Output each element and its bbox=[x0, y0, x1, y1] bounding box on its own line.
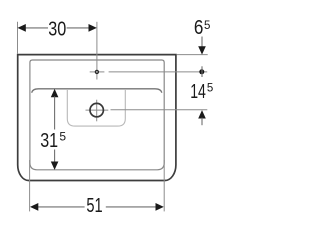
dim 51: dimension line bbox=[37, 206, 85, 208]
top edge leader line to right bbox=[177, 54, 208, 56]
outer basin outline bbox=[18, 55, 176, 181]
svg-text:5: 5 bbox=[204, 20, 210, 32]
drain crosshair horizontal bbox=[86, 109, 109, 111]
dim 14.5: up arrow below drain line bbox=[198, 110, 206, 118]
rim inner edge bbox=[30, 60, 164, 170]
dim 51: left arrow bbox=[30, 203, 38, 211]
dim 31.5: down arrow at rim bottom edge bbox=[51, 162, 59, 170]
drain crosshair vertical bbox=[96, 100, 98, 122]
svg-text:31: 31 bbox=[40, 130, 58, 152]
dim 30: left extension line bbox=[17, 22, 19, 54]
svg-text:5: 5 bbox=[207, 83, 213, 95]
dim 14.5: dot marker on faucet line bbox=[199, 69, 204, 74]
dim 6.5: stem above arrow bbox=[201, 37, 203, 48]
drain leader line to right bbox=[111, 109, 208, 111]
svg-text:5: 5 bbox=[59, 129, 66, 143]
dim 14.5: stem below arrow bbox=[201, 118, 203, 126]
svg-text:14: 14 bbox=[190, 81, 206, 103]
faucet leader line to right bbox=[109, 71, 208, 73]
dim 30: dimension line bbox=[25, 27, 49, 29]
dim 51: right extension line bbox=[163, 160, 165, 211]
faucet hole bbox=[95, 70, 99, 74]
dim 31.5: lower stem bbox=[54, 150, 56, 163]
svg-text:51: 51 bbox=[86, 195, 102, 217]
dim 51: left extension line bbox=[29, 160, 31, 211]
drain hole bbox=[90, 103, 103, 116]
dim 30: left arrow bbox=[18, 24, 26, 32]
svg-text:30: 30 bbox=[48, 19, 66, 41]
svg-text:6: 6 bbox=[194, 17, 204, 39]
dim 31.5: upper stem bbox=[54, 96, 56, 129]
faucet hole centerline vertical (extension line from dim 30) bbox=[96, 22, 98, 80]
drain recess outline bbox=[67, 89, 125, 126]
dim 31.5: up arrow at bowl top edge bbox=[51, 89, 59, 97]
dim 14.5: stub through dot bbox=[201, 66, 203, 77]
dim 51: right arrow bbox=[156, 203, 164, 211]
dim 30: right arrow bbox=[89, 24, 97, 32]
faucet hole crosshair horizontal bbox=[90, 71, 105, 73]
dim 6.5: down arrow bbox=[198, 46, 206, 54]
bowl top edge bbox=[32, 89, 162, 93]
